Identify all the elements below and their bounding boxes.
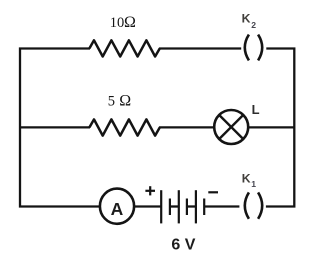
svg-text:Ω: Ω	[124, 14, 136, 31]
svg-text:L: L	[252, 102, 260, 117]
svg-text:2: 2	[251, 20, 256, 30]
svg-text:1: 1	[251, 179, 256, 189]
svg-text:5: 5	[108, 93, 115, 109]
svg-text:6 V: 6 V	[171, 237, 195, 254]
svg-text:Ω: Ω	[119, 92, 131, 109]
svg-text:K: K	[242, 12, 251, 26]
svg-text:A: A	[111, 199, 124, 219]
svg-text:10: 10	[110, 15, 125, 31]
svg-text:K: K	[242, 172, 251, 186]
